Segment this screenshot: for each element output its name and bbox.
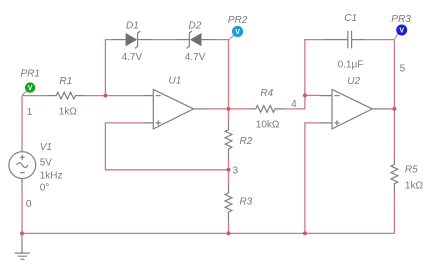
- svg-text:0.1μF: 0.1μF: [338, 59, 364, 70]
- wire: input rail left of R1: [22, 95, 48, 97]
- probe PR2: [228, 15, 248, 40]
- svg-text:PR3: PR3: [391, 14, 411, 25]
- svg-text:0°: 0°: [40, 182, 50, 193]
- junction: U2 output / right vertical: [392, 107, 396, 111]
- wire: R3 bottom to ground rail: [228, 221, 230, 234]
- svg-text:R1: R1: [59, 76, 72, 87]
- svg-text:R2: R2: [240, 136, 253, 147]
- svg-text:10kΩ: 10kΩ: [256, 120, 280, 131]
- probe PR1: [21, 69, 40, 96]
- wire: R5 bottom to ground rail: [393, 194, 395, 233]
- svg-text:5: 5: [400, 64, 406, 75]
- resistor R1: [48, 76, 84, 117]
- wire: U2 output to right vertical: [387, 108, 394, 110]
- ground: [15, 233, 30, 259]
- svg-text:4.7V: 4.7V: [122, 52, 143, 63]
- svg-text:U2: U2: [347, 76, 360, 87]
- svg-text:PR1: PR1: [21, 69, 40, 80]
- wire: R4 right to node 4: [285, 95, 305, 109]
- resistor R2: [225, 121, 253, 158]
- svg-text:1kΩ: 1kΩ: [59, 106, 78, 117]
- wire: node 4 up to C1 left: [305, 40, 324, 96]
- svg-text:V1: V1: [40, 142, 52, 153]
- resistor R4: [248, 88, 284, 131]
- svg-text:D2: D2: [189, 21, 202, 32]
- wire: bottom ground rail: [22, 232, 394, 234]
- svg-text:3: 3: [233, 166, 239, 177]
- junction: V1 / ground rail: [20, 231, 24, 235]
- junction: node 3: [227, 168, 231, 172]
- svg-text:R5: R5: [405, 164, 418, 175]
- wire: R2 bottom to node 3: [228, 158, 230, 170]
- svg-text:5V: 5V: [40, 158, 53, 169]
- wire: V1 bottom to ground rail: [21, 183, 23, 233]
- wire: between D1 and D2: [152, 39, 178, 41]
- wire: R1 right to U1 inverting input: [84, 95, 144, 97]
- svg-text:0: 0: [26, 199, 32, 210]
- wire: C1 right to right vertical: [365, 39, 394, 41]
- svg-text:1kHz: 1kHz: [40, 170, 63, 181]
- wire: U2 non-inverting input down to ground rail: [305, 123, 320, 233]
- junction: R3 / ground rail: [227, 231, 231, 235]
- svg-text:R3: R3: [240, 197, 253, 208]
- svg-text:4: 4: [291, 99, 297, 110]
- wire: right vertical from C1 corner down to R5: [393, 40, 395, 156]
- junction: R1 / D1 / U1 input: [103, 94, 107, 98]
- wire: left vertical from input corner to V1 top: [21, 96, 23, 148]
- junction: U1 output / D2 / R2 / R4: [227, 107, 231, 111]
- op-amp U2: [320, 76, 387, 129]
- svg-text:PR2: PR2: [228, 15, 248, 26]
- junction: U2 + / ground rail: [303, 231, 307, 235]
- wire: U1 non-inverting input feedback to node 3: [105, 123, 228, 170]
- svg-text:1: 1: [27, 107, 33, 118]
- junction: node 4: [303, 93, 307, 97]
- capacitor C1: [324, 13, 365, 70]
- diode D1 (zener, 4.7V): [113, 21, 152, 63]
- wire: U1 output to R4: [208, 108, 248, 110]
- wire: node 3 to R3 top: [228, 170, 230, 184]
- wire: junction up to diode rail: [105, 40, 112, 96]
- AC source V1: [9, 142, 63, 193]
- svg-text:V: V: [235, 29, 240, 36]
- diode D2 (zener, 4.7V): [177, 21, 215, 63]
- svg-text:C1: C1: [344, 13, 357, 24]
- wire: node 4 to U2 inverting input: [305, 94, 320, 96]
- svg-text:R4: R4: [260, 88, 273, 99]
- wire: U1 output junction down to R2: [228, 109, 230, 121]
- svg-text:1kΩ: 1kΩ: [405, 181, 424, 192]
- svg-text:V: V: [28, 85, 33, 92]
- svg-text:V: V: [399, 28, 404, 35]
- svg-text:D1: D1: [126, 21, 139, 32]
- wire: D2 to corner and down to U1 output: [215, 40, 229, 109]
- resistor R5: [391, 155, 423, 194]
- op-amp U1: [144, 76, 209, 129]
- svg-text:U1: U1: [169, 76, 182, 87]
- resistor R3: [225, 183, 253, 220]
- probe PR3: [391, 14, 411, 40]
- svg-text:4.7V: 4.7V: [185, 52, 206, 63]
